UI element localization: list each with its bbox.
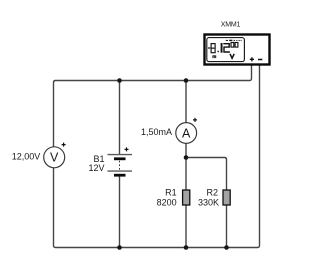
svg-text:12V: 12V <box>88 163 104 173</box>
svg-text:V: V <box>50 151 59 165</box>
svg-text:12,00V: 12,00V <box>12 151 41 161</box>
svg-text:R2: R2 <box>206 187 218 197</box>
svg-text:8200: 8200 <box>157 197 177 207</box>
svg-text:1,50mA: 1,50mA <box>141 127 172 137</box>
svg-text:R1: R1 <box>165 187 177 197</box>
svg-text:XMM1: XMM1 <box>221 22 241 29</box>
svg-text:A: A <box>182 126 191 140</box>
svg-text:330K: 330K <box>198 197 219 207</box>
